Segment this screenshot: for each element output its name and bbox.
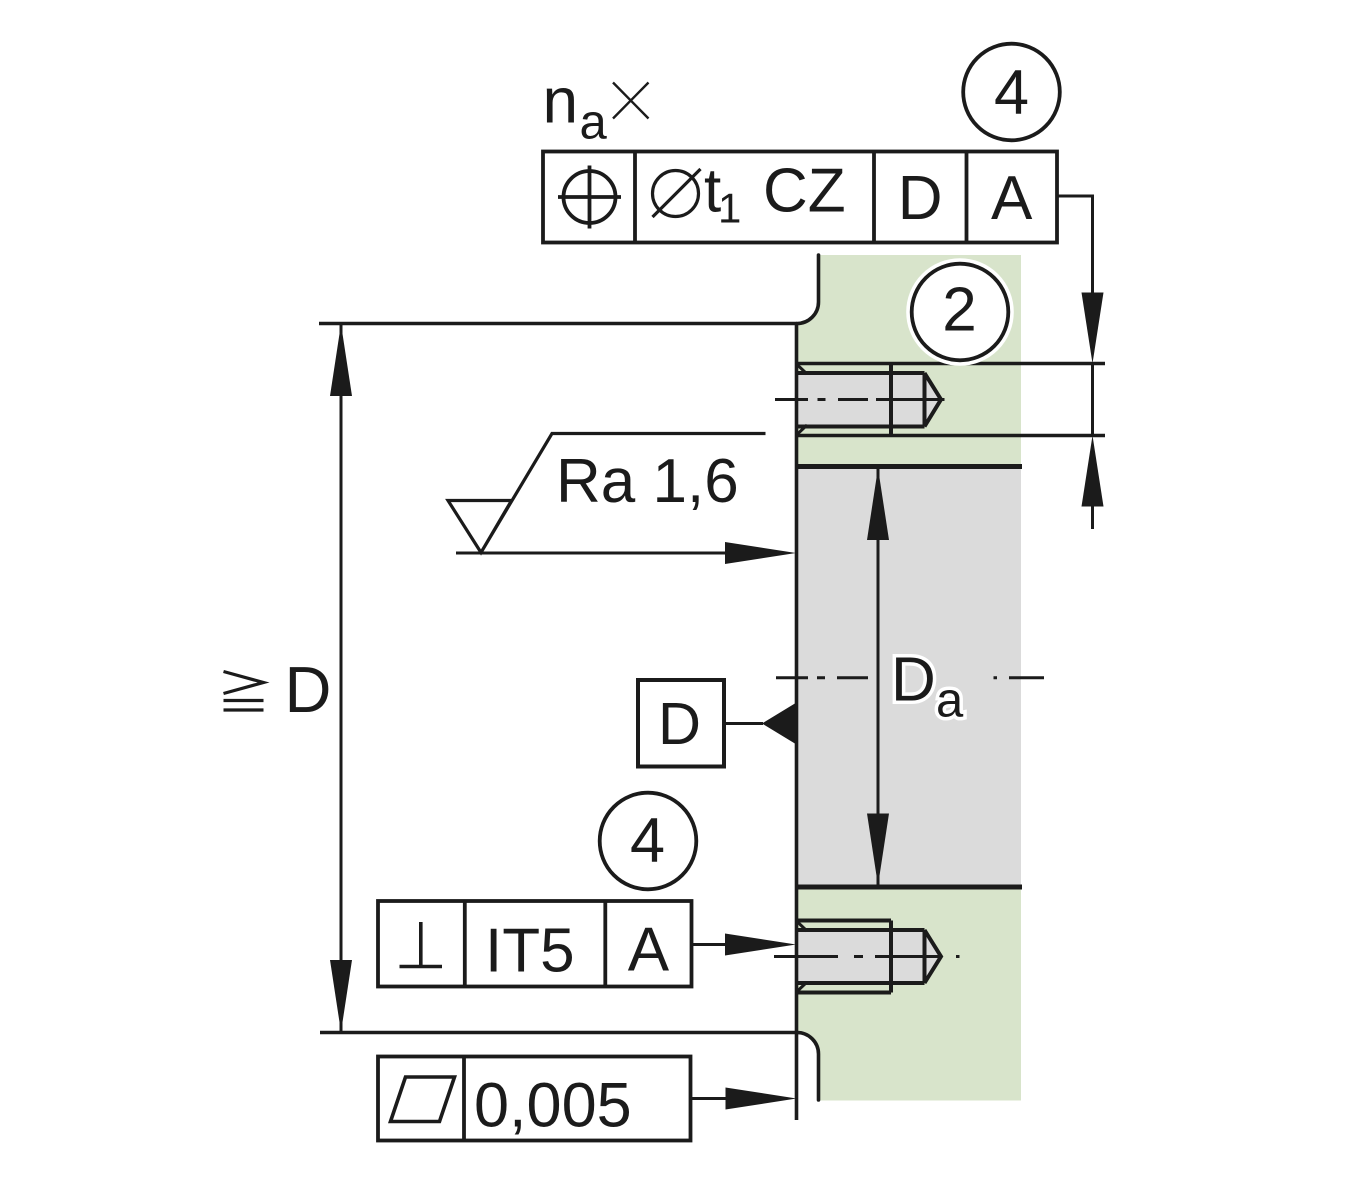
thread dimension arrow upper (points down): [1082, 293, 1104, 364]
item circle 4 top: [963, 44, 1060, 141]
tapped hole 2 outline lines: [797, 921, 891, 993]
dimension Da arrow top: [867, 468, 889, 540]
svg-text:A: A: [991, 164, 1033, 233]
position feature control frame: [543, 152, 1057, 243]
bottom corner fillet: [797, 1033, 819, 1101]
svg-text:0,005: 0,005: [474, 1071, 632, 1141]
datum D feature box: [638, 680, 724, 767]
perpendicularity feature control frame: [378, 901, 692, 987]
svg-text:a: a: [580, 96, 608, 150]
svg-text:n: n: [543, 65, 579, 137]
section boundary line lower (thick): [797, 885, 1022, 890]
svg-text:2: 2: [942, 276, 976, 345]
datum D leader: [724, 722, 763, 725]
surface finish leader line: [456, 552, 730, 555]
inner ring upper section (green fill): [797, 255, 1021, 467]
thread dimension arrow lower (points up): [1082, 436, 1104, 507]
surface finish symbol (material removal triangle): [448, 434, 766, 553]
dimension D arrow top: [330, 324, 352, 396]
thread dimension line segment: [1091, 364, 1094, 436]
svg-text:D: D: [898, 164, 943, 233]
svg-text:a: a: [936, 674, 964, 728]
item circle 4 bottom: [600, 793, 697, 890]
abutment face line: [795, 324, 799, 1121]
tapped hole 1 chamfers: [798, 365, 808, 434]
multiplication cross: [613, 83, 649, 119]
svg-text:IT5: IT5: [485, 917, 575, 986]
tapped hole 1 outline lines / extension lines: [797, 364, 1105, 436]
flatness leader arrow: [726, 1088, 797, 1110]
shoulder bottom face line: [320, 1031, 797, 1034]
thread dimension tail: [1091, 505, 1094, 529]
svg-text:4: 4: [994, 58, 1029, 128]
shoulder top face line: [319, 322, 797, 325]
set screw 2 centerline: [774, 955, 960, 958]
flatness feature control frame: [378, 1057, 691, 1141]
datum D filled triangle: [762, 703, 797, 745]
svg-text:1: 1: [718, 185, 741, 232]
perpendicularity leader arrow: [725, 934, 796, 956]
section boundary line upper (thick): [797, 464, 1022, 469]
dimension D line: [340, 324, 343, 1032]
svg-text:D: D: [285, 653, 332, 726]
label >= D (greater-equal symbol drawn): [224, 672, 264, 711]
perpendicularity leader: [692, 943, 731, 946]
item circle 2 (with white halo): [912, 264, 1009, 361]
top corner fillet: [797, 255, 819, 324]
svg-text:A: A: [628, 916, 670, 985]
leader from datum A cell to thread dimension: [1057, 196, 1093, 293]
set screw 1 body (gray fill): [798, 373, 941, 427]
svg-text:CZ: CZ: [763, 157, 846, 226]
dimension D arrow bottom: [330, 960, 352, 1032]
tapped hole 2 chamfers: [798, 922, 808, 991]
svg-text:4: 4: [630, 806, 665, 876]
set screw 2 body (gray fill): [798, 930, 941, 983]
flatness leader: [691, 1097, 731, 1100]
bore centerline: [776, 676, 1044, 679]
dimension Da arrow bottom: [867, 814, 889, 886]
surface finish leader arrow: [725, 542, 796, 564]
bore section Da (gray fill): [797, 467, 1021, 888]
svg-text:D: D: [658, 690, 701, 757]
svg-text:D: D: [891, 646, 936, 715]
dimension Da line: [877, 467, 880, 886]
set screw 2 outline: [798, 921, 941, 993]
set screw 1 outline: [798, 364, 941, 436]
set screw 1 centerline: [775, 398, 945, 401]
flatness symbol (parallelogram): [391, 1077, 455, 1122]
diameter symbol: [653, 171, 699, 217]
svg-text:Ra 1,6: Ra 1,6: [556, 447, 739, 516]
perpendicularity symbol: [400, 922, 443, 967]
position symbol: [558, 166, 621, 229]
inner ring lower section (green fill): [797, 887, 1021, 1101]
